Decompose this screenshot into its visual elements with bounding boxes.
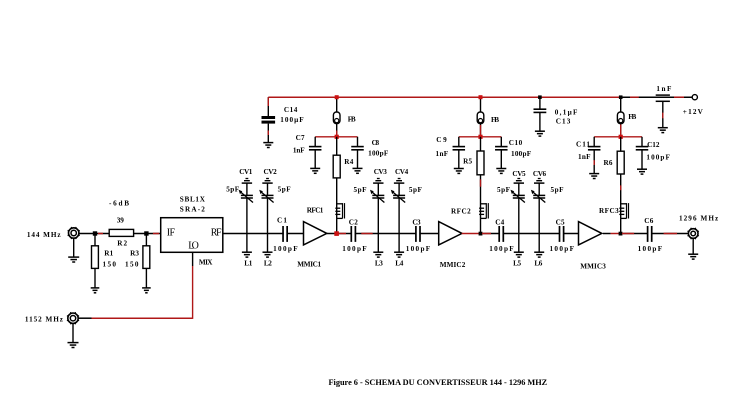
capacitor C4 100pF	[499, 226, 503, 242]
inductor L1 (stripline to ground)	[242, 234, 252, 258]
capacitor C10 100pF	[495, 137, 508, 169]
svg-text:SBL1X: SBL1X	[180, 195, 206, 203]
label L3	[375, 260, 383, 268]
label C13	[556, 118, 571, 126]
label RFC3	[599, 207, 619, 215]
label 100pF (value of C4)	[489, 245, 514, 253]
label CV6	[533, 170, 547, 178]
node MMIC1 output junction	[334, 231, 339, 236]
svg-text:R6: R6	[604, 159, 613, 167]
inductor L3 (stripline to ground)	[373, 234, 383, 258]
svg-text:5pF: 5pF	[551, 186, 565, 194]
capacitor C11 1nF	[588, 137, 601, 174]
label 5pF (CV5)	[497, 186, 511, 194]
node rail junction net1	[335, 95, 339, 99]
svg-text:R5: R5	[463, 157, 472, 165]
svg-text:5pF: 5pF	[409, 186, 423, 194]
svg-text:LO: LO	[188, 240, 199, 251]
node bias junction net1	[335, 135, 339, 139]
resistor R2	[109, 229, 133, 236]
label 100pF (value of C12)	[646, 153, 670, 161]
label C4	[495, 219, 504, 227]
wire tank1b to C1	[268, 233, 284, 235]
ground C7	[310, 168, 320, 173]
label RFC2	[451, 208, 471, 216]
capacitor C13 0,1µF	[534, 97, 547, 131]
svg-text:Figure 6 - SCHEMA DU CONVERTIS: Figure 6 - SCHEMA DU CONVERTISSEUR 144 -…	[329, 378, 548, 387]
svg-text:CV4: CV4	[395, 168, 409, 176]
label 100pF (value of C2)	[342, 245, 367, 253]
wire bias node net3 (red)	[594, 136, 642, 138]
svg-text:100pF: 100pF	[342, 245, 367, 253]
svg-text:100pF: 100pF	[550, 245, 575, 253]
label SRA-2	[180, 205, 206, 213]
svg-text:FB: FB	[348, 115, 356, 123]
label L5	[513, 260, 521, 268]
svg-text:C9: C9	[436, 136, 447, 144]
svg-text:1nF: 1nF	[293, 146, 305, 154]
svg-text:5pF: 5pF	[226, 186, 240, 194]
label RFC1	[307, 206, 324, 214]
wire node1 to C2	[339, 233, 352, 235]
ground C10	[496, 169, 506, 174]
ground J1	[68, 238, 79, 262]
label 1nF (value of C7)	[293, 146, 305, 154]
svg-text:C7: C7	[296, 134, 305, 142]
label 100pF (value of C5)	[550, 245, 575, 253]
label +12V	[683, 108, 704, 116]
node MMIC3 output junction	[619, 232, 623, 236]
svg-text:150: 150	[103, 260, 117, 268]
label CV4	[395, 168, 409, 176]
svg-text:-6dB: -6dB	[109, 199, 129, 207]
svg-text:L3: L3	[375, 260, 383, 268]
wire +12V rail right section	[621, 96, 692, 98]
svg-text:150: 150	[125, 260, 139, 268]
wire C2 to tank 2	[355, 233, 379, 235]
svg-text:CV6: CV6	[533, 170, 547, 178]
wire node2 to C4	[482, 233, 500, 235]
pin LO	[188, 240, 199, 251]
svg-text:C11: C11	[576, 140, 590, 148]
svg-text:100pF: 100pF	[368, 149, 389, 157]
label C9	[436, 136, 447, 144]
label 1nF (value of C9)	[436, 150, 449, 158]
svg-text:R4: R4	[344, 158, 353, 166]
inductor L5 (stripline to ground)	[514, 234, 524, 258]
svg-text:100pF: 100pF	[646, 153, 670, 161]
label 1nF (value of C11)	[578, 153, 591, 161]
label 100pF (value of C6)	[638, 245, 663, 253]
label C8	[372, 139, 380, 147]
label CV5	[512, 170, 526, 178]
label 5pF (CV3)	[354, 186, 368, 194]
svg-text:C8: C8	[372, 139, 380, 147]
inductor RFC1 (RF choke)	[335, 203, 344, 219]
svg-text:C13: C13	[556, 118, 571, 126]
label 144 MHz	[27, 231, 61, 239]
label FB (net3)	[628, 113, 636, 121]
svg-text:100pF: 100pF	[273, 245, 298, 253]
svg-text:C5: C5	[556, 219, 565, 227]
svg-text:MMIC3: MMIC3	[580, 262, 606, 270]
label CV3	[374, 168, 388, 176]
wire C6 to output connector	[651, 233, 688, 235]
wire RFC1 to output node	[336, 219, 338, 234]
op-amp MMIC1 (amplifier)	[304, 222, 327, 245]
wire tank2a to tank2b	[378, 233, 399, 235]
wire FB2 to bias node	[480, 124, 482, 137]
label 100µF	[280, 116, 304, 124]
ferrite bead FB (net3)	[617, 112, 624, 124]
svg-text:L4: L4	[395, 260, 403, 268]
svg-text:MMIC1: MMIC1	[297, 260, 321, 268]
wire mixer RF to tank 1	[223, 233, 247, 235]
node bias junction net3	[619, 135, 623, 139]
wire bias node net1 (red)	[315, 136, 357, 138]
resistor R4	[333, 155, 340, 178]
svg-text:1nF: 1nF	[436, 150, 449, 158]
label R5	[463, 157, 472, 165]
ground R3	[142, 268, 151, 292]
connector J2 1152 MHz LO input	[67, 312, 79, 324]
svg-text:C1: C1	[277, 216, 287, 224]
op-amp MMIC2 (amplifier)	[439, 222, 462, 245]
label R6	[604, 159, 613, 167]
svg-text:C14: C14	[284, 106, 298, 114]
wire rail to FB3	[620, 97, 622, 112]
label 100pF (value of C8)	[368, 149, 389, 157]
label C7	[296, 134, 305, 142]
svg-text:C2: C2	[349, 218, 358, 226]
wire tank2b to C3	[399, 233, 416, 235]
label R3	[130, 250, 139, 258]
node C13-rail junction	[538, 95, 542, 99]
wire bias node to R5	[480, 137, 482, 151]
wire rail to FB1	[336, 97, 338, 112]
wire C3 to MMIC2	[419, 233, 438, 235]
label 100pF (value of C10)	[511, 150, 532, 158]
label L1	[244, 260, 252, 268]
ground 1nF bypass	[658, 128, 668, 133]
svg-text:100pF: 100pF	[489, 245, 514, 253]
label 0,1µF	[555, 108, 578, 116]
label -6dB	[109, 199, 129, 207]
capacitor C3 100pF	[416, 226, 420, 242]
label 5pF (CV2)	[278, 186, 292, 194]
label C12	[647, 141, 660, 149]
label SBL1X	[180, 195, 206, 203]
capacitor C2 100pF	[351, 226, 355, 242]
label R1	[104, 250, 113, 258]
connector J3 1296 MHz output	[688, 228, 699, 239]
label C1	[277, 216, 287, 224]
wire rail to FB2	[480, 97, 482, 112]
mixer U1 SBL1X box	[161, 218, 223, 253]
label R2	[117, 240, 127, 248]
ground C9	[454, 169, 464, 174]
svg-text:C6: C6	[644, 217, 653, 225]
label FB (net1)	[348, 115, 356, 123]
label CV2	[264, 168, 278, 176]
svg-text:1nF: 1nF	[656, 85, 672, 93]
label L6	[534, 260, 542, 268]
svg-text:+12V: +12V	[683, 108, 704, 116]
label 5pF (CV6)	[551, 186, 565, 194]
wire LO pin	[192, 252, 194, 266]
svg-text:CV5: CV5	[512, 170, 526, 178]
inductor L2 (stripline to ground)	[263, 234, 273, 258]
svg-text:FB: FB	[628, 113, 636, 121]
trimmer capacitor CV2 5pF	[259, 179, 273, 234]
label MMIC3	[580, 262, 606, 270]
ground C8	[353, 168, 363, 173]
svg-text:C3: C3	[412, 218, 421, 226]
wire C4 to tank 3	[503, 233, 519, 235]
label C14	[284, 106, 298, 114]
wire R4 to RFC1	[336, 178, 338, 203]
label 100pF (value of C1)	[273, 245, 298, 253]
terminal +12V	[692, 95, 697, 100]
label 100pF (value of C3)	[406, 245, 431, 253]
wire FB1 to bias node	[336, 124, 338, 137]
svg-text:FB: FB	[491, 116, 499, 124]
svg-text:CV3: CV3	[374, 168, 388, 176]
wire R6 to RFC3	[620, 174, 622, 203]
svg-text:0,1µF: 0,1µF	[555, 108, 578, 116]
wire MMIC3 out	[603, 233, 619, 235]
capacitor C8 100pF	[351, 137, 364, 168]
svg-text:RFC2: RFC2	[451, 208, 471, 216]
capacitor C6 100pF	[648, 226, 652, 242]
label C2	[349, 218, 358, 226]
node R1 junction	[93, 231, 97, 235]
svg-text:5pF: 5pF	[354, 186, 368, 194]
label 150 (value of R1)	[103, 260, 117, 268]
svg-text:RFC1: RFC1	[307, 206, 324, 214]
label MMIC2	[440, 261, 466, 269]
ground C11	[589, 174, 599, 179]
inductor L6 (stripline to ground)	[534, 234, 544, 258]
wire tank3b to C5	[539, 233, 560, 235]
resistor R3	[143, 234, 150, 269]
ferrite bead FB (net1)	[333, 112, 340, 124]
label C11	[576, 140, 590, 148]
svg-text:L5: L5	[513, 260, 521, 268]
wire C5 to MMIC3	[563, 233, 579, 235]
label R4	[344, 158, 353, 166]
op-amp MMIC3 (amplifier)	[579, 222, 602, 245]
label CV1	[239, 168, 253, 176]
label 150 (value of R3)	[125, 260, 139, 268]
label 1296 MHz	[679, 214, 719, 222]
wire MMIC1 out	[327, 233, 337, 235]
pin RF	[211, 228, 222, 239]
wire bias node to R6	[620, 137, 622, 151]
wire +12V rail (red)	[268, 96, 621, 98]
capacitor C5 100pF	[560, 226, 564, 242]
label MMIC1	[297, 260, 321, 268]
svg-text:L2: L2	[264, 260, 272, 268]
inductor RFC2 (RF choke)	[479, 203, 488, 219]
connector J1 144 MHz input	[68, 227, 80, 239]
wire R2 to mixer IF	[134, 233, 161, 235]
capacitor 1nF (supply bypass)	[656, 95, 670, 127]
ground J2	[68, 324, 79, 348]
wire RFC3 to output node	[620, 219, 622, 234]
resistor R5	[477, 151, 484, 175]
label FB (net2)	[491, 116, 499, 124]
svg-text:MIX: MIX	[199, 259, 213, 267]
node rail junction net2	[479, 95, 483, 99]
wire FB3 to bias node	[620, 124, 622, 137]
svg-text:100pF: 100pF	[511, 150, 532, 158]
svg-text:144 MHz: 144 MHz	[27, 231, 61, 239]
inductor L4 (stripline to ground)	[394, 234, 404, 258]
ground C13	[535, 131, 545, 136]
trimmer capacitor CV6 5pF	[531, 179, 545, 234]
svg-text:39: 39	[117, 217, 124, 225]
caption Figure 6	[329, 378, 548, 387]
resistor R1	[92, 234, 99, 269]
svg-text:L6: L6	[534, 260, 542, 268]
label C10	[509, 139, 523, 147]
node bias junction net2	[478, 135, 482, 139]
svg-text:CV2: CV2	[264, 168, 278, 176]
wire MMIC2 out (red)	[462, 233, 479, 235]
capacitor C9 1nF	[453, 137, 466, 169]
label C3	[412, 218, 421, 226]
label MIX	[199, 259, 213, 267]
wire RFC2 to output node	[480, 219, 482, 234]
label 1152 MHz	[25, 316, 64, 324]
capacitor C7 1nF	[309, 137, 322, 168]
svg-text:RFC3: RFC3	[599, 207, 619, 215]
node R3 junction	[144, 231, 148, 235]
label 5pF (CV4)	[409, 186, 423, 194]
capacitor C1 100pF	[283, 226, 287, 242]
wire bias node to R4	[336, 137, 338, 155]
label C6	[644, 217, 653, 225]
svg-text:R1: R1	[104, 250, 113, 258]
wire bias node net2 (red)	[459, 136, 502, 138]
pin IF	[167, 228, 176, 239]
svg-text:C10: C10	[509, 139, 523, 147]
svg-text:100µF: 100µF	[280, 116, 304, 124]
trimmer capacitor CV3 5pF	[370, 179, 384, 234]
svg-text:IF: IF	[167, 228, 176, 239]
wire J2 to LO corner	[78, 317, 91, 319]
svg-text:1152 MHz: 1152 MHz	[25, 316, 64, 324]
resistor R6	[617, 151, 624, 174]
inductor RFC3 (RF choke)	[619, 203, 628, 219]
trimmer capacitor CV5 5pF	[511, 179, 525, 234]
wire R5 to RFC2	[480, 175, 482, 203]
svg-text:MMIC2: MMIC2	[440, 261, 466, 269]
node MMIC2 output junction	[479, 232, 483, 236]
capacitor C14 (electrolytic)	[262, 97, 276, 142]
svg-text:SRA-2: SRA-2	[180, 205, 206, 213]
wire LO net (red)	[92, 266, 193, 319]
svg-text:5pF: 5pF	[278, 186, 292, 194]
svg-text:RF: RF	[211, 228, 222, 239]
node rail junction net3	[619, 95, 623, 99]
svg-text:L1: L1	[244, 260, 252, 268]
capacitor C12 100pF	[636, 137, 649, 169]
svg-text:CV1: CV1	[239, 168, 253, 176]
ground C12	[637, 169, 647, 174]
svg-text:1296 MHz: 1296 MHz	[679, 214, 719, 222]
svg-text:100pF: 100pF	[406, 245, 431, 253]
label 1nF (supply)	[656, 85, 672, 93]
svg-text:R3: R3	[130, 250, 139, 258]
wire tank3a to tank3b	[519, 233, 539, 235]
trimmer capacitor CV1 5pF	[239, 179, 253, 234]
ground C14	[263, 143, 273, 148]
label L4	[395, 260, 403, 268]
trimmer capacitor CV4 5pF	[391, 179, 405, 234]
wire J1 to R2	[79, 233, 109, 235]
svg-text:100pF: 100pF	[638, 245, 663, 253]
svg-text:C12: C12	[647, 141, 660, 149]
svg-text:C4: C4	[495, 219, 504, 227]
ground R1	[91, 268, 100, 292]
ground J3	[688, 239, 698, 260]
wire C1 to MMIC1	[287, 233, 304, 235]
wire tank1a to tank1b	[247, 233, 268, 235]
ferrite bead FB (net2)	[477, 112, 484, 124]
label 39 (value of R2)	[117, 217, 124, 225]
label C5	[556, 219, 565, 227]
svg-text:R2: R2	[117, 240, 127, 248]
label L2	[264, 260, 272, 268]
svg-text:1nF: 1nF	[578, 153, 591, 161]
label 5pF (CV1)	[226, 186, 240, 194]
svg-text:5pF: 5pF	[497, 186, 511, 194]
wire node3 to C6	[622, 233, 648, 235]
